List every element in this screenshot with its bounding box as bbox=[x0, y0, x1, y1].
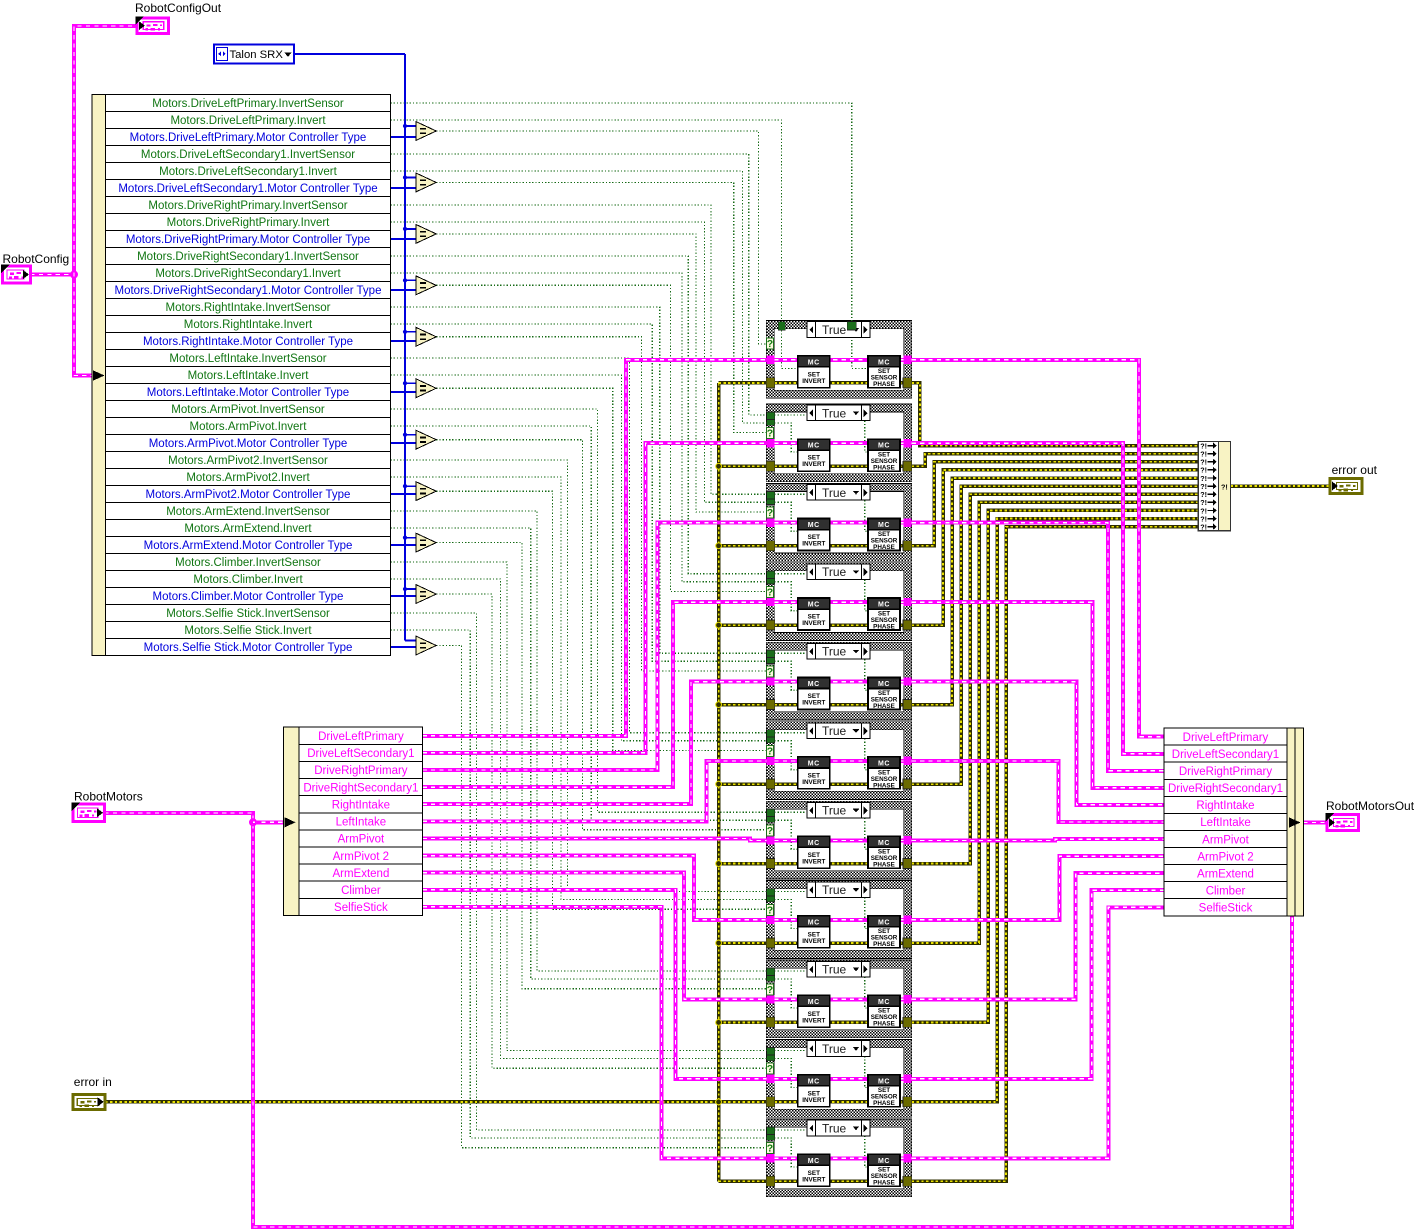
svg-text:Motors.ArmPivot.Motor Controll: Motors.ArmPivot.Motor Controller Type bbox=[149, 438, 348, 450]
case 7 pink tunnel left bbox=[766, 836, 774, 844]
case 7 pink tunnel right bbox=[903, 836, 911, 844]
error branch into case 2 bbox=[719, 465, 767, 469]
svg-text:DriveLeftPrimary: DriveLeftPrimary bbox=[1183, 732, 1269, 744]
boolean wire case 7 internal to Set Invert bbox=[774, 820, 797, 849]
svg-text:Motors.ArmPivot2.InvertSensor: Motors.ArmPivot2.InvertSensor bbox=[168, 455, 328, 467]
case 2 pink tunnel right bbox=[903, 439, 911, 447]
enum wire stub to equals node 2 bbox=[405, 176, 417, 178]
boolean wire Motors.ArmExtend.InvertSensor to case 9 bbox=[391, 511, 767, 971]
case 5 pink tunnel right bbox=[903, 677, 911, 685]
case 6 pink tunnel right bbox=[903, 757, 911, 765]
error wire case 3 internal bbox=[774, 544, 903, 548]
svg-text:INVERT: INVERT bbox=[802, 858, 825, 865]
svg-text:MC: MC bbox=[878, 919, 890, 926]
error wire case 7 to merge errors bbox=[912, 494, 1198, 863]
svg-text:MC: MC bbox=[878, 443, 890, 450]
boolean wire Motors.DriveLeftSecondary1.Invert to case 2 bbox=[391, 171, 767, 423]
svg-text:MC: MC bbox=[808, 761, 820, 768]
svg-text:?!: ?! bbox=[1221, 483, 1228, 492]
svg-text:?: ? bbox=[767, 984, 773, 996]
svg-text:DriveRightSecondary1: DriveRightSecondary1 bbox=[1168, 783, 1283, 795]
svg-text:MC: MC bbox=[878, 840, 890, 847]
case structure 8 border bbox=[766, 881, 911, 959]
case 4 selector terminal bbox=[766, 587, 773, 598]
motor ref wire case 3 to bundle DriveRightPrimary bbox=[912, 523, 1164, 771]
case 6 subVI MC Set Sensor Phase bbox=[868, 757, 900, 789]
motor ref wire case 1 to bundle DriveLeftPrimary bbox=[912, 360, 1164, 737]
svg-text:Motors.DriveLeftPrimary.Invert: Motors.DriveLeftPrimary.Invert bbox=[170, 115, 326, 127]
case 1 error tunnel left bbox=[766, 378, 775, 388]
svg-text:Motors.ArmExtend.InvertSensor: Motors.ArmExtend.InvertSensor bbox=[166, 506, 330, 518]
error wire case 4 to merge errors bbox=[912, 470, 1198, 625]
motor ref wire case 8 to bundle ArmPivot 2 bbox=[912, 856, 1164, 920]
svg-text:error out: error out bbox=[1332, 463, 1378, 477]
case 11 subVI MC Set Sensor Phase bbox=[868, 1154, 900, 1186]
enum wire from Motor Controller Type row 10 bbox=[391, 595, 418, 597]
blue wire junction 3 bbox=[403, 227, 407, 231]
svg-text:PHASE: PHASE bbox=[873, 782, 895, 789]
svg-text:LeftIntake: LeftIntake bbox=[336, 817, 387, 829]
svg-text:?: ? bbox=[767, 1143, 773, 1155]
motor ref wire case 11 internal bbox=[774, 1156, 903, 1160]
svg-text:MC: MC bbox=[878, 522, 890, 529]
RobotMotors wire junction dot bbox=[250, 819, 256, 825]
case structure 3 border bbox=[766, 483, 911, 561]
enum wire stub to equals node 1 bbox=[405, 125, 417, 127]
error trunk junction at case 2 bbox=[716, 463, 722, 469]
svg-text:DriveLeftSecondary1: DriveLeftSecondary1 bbox=[1172, 749, 1279, 761]
svg-text:Motors.DriveRightPrimary.Inver: Motors.DriveRightPrimary.Invert bbox=[167, 217, 331, 229]
boolean wire case 9 internal to Set Sensor Phase bbox=[774, 971, 868, 1008]
case 8 selector terminal bbox=[766, 904, 773, 915]
enum wire from Motor Controller Type row 8 bbox=[391, 493, 418, 495]
equals node 7 bbox=[416, 430, 436, 449]
svg-text:Motors.RightIntake.Motor Contr: Motors.RightIntake.Motor Controller Type bbox=[143, 336, 353, 348]
RobotMotors cluster wire into unbundle bbox=[253, 820, 284, 824]
svg-text:SelfieStick: SelfieStick bbox=[1199, 903, 1253, 915]
boolean wire Motors.Selfie Stick.InvertSensor to case 11 bbox=[391, 613, 767, 1130]
case 9 tunnel Invert bbox=[767, 976, 775, 982]
motor ref wire SelfieStick into case 11 bbox=[423, 907, 767, 1158]
svg-text:MC: MC bbox=[808, 522, 820, 529]
motor ref wire DriveRightSecondary1 into case 4 bbox=[423, 602, 767, 787]
svg-text:DriveRightPrimary: DriveRightPrimary bbox=[1179, 766, 1273, 778]
boolean wire case 6 internal to Set Invert bbox=[774, 741, 797, 770]
case 5 error tunnel left bbox=[766, 700, 775, 710]
motor ref wire DriveLeftSecondary1 into case 2 bbox=[423, 443, 767, 753]
svg-text:PHASE: PHASE bbox=[873, 381, 895, 388]
case 1 error tunnel right bbox=[903, 378, 912, 388]
svg-text:?: ? bbox=[767, 1063, 773, 1075]
error wire case 2 internal bbox=[774, 465, 903, 469]
svg-text:Motors.Selfie Stick.InvertSens: Motors.Selfie Stick.InvertSensor bbox=[166, 608, 330, 620]
error wire case 6 internal bbox=[774, 782, 903, 786]
error trunk junction at case 3 bbox=[716, 543, 722, 549]
svg-text:INVERT: INVERT bbox=[802, 1176, 825, 1183]
case structure 10 border bbox=[766, 1040, 911, 1118]
case 9 error tunnel right bbox=[903, 1017, 912, 1027]
case 5 error tunnel right bbox=[903, 700, 912, 710]
boolean wire Motors.Climber.Invert to case 10 bbox=[391, 579, 767, 1059]
boolean wire Motors.Selfie Stick.Invert to case 11 bbox=[391, 630, 767, 1138]
motor ref wire case 10 to bundle Climber bbox=[912, 890, 1164, 1079]
svg-text:?: ? bbox=[767, 825, 773, 837]
case structure 1 border bbox=[766, 321, 911, 399]
case 11 selector label True bbox=[807, 1120, 870, 1136]
svg-text:Motors.ArmPivot2.Motor Control: Motors.ArmPivot2.Motor Controller Type bbox=[146, 489, 351, 501]
case 5 subVI MC Set Sensor Phase bbox=[868, 677, 900, 709]
error wire case 4 internal bbox=[774, 623, 903, 627]
blue wire junction 1 bbox=[403, 124, 407, 128]
error branch into case 4 bbox=[719, 623, 767, 627]
motor ref wire case 2 internal bbox=[774, 441, 903, 445]
equals node 6 bbox=[416, 379, 436, 398]
svg-text:Climber: Climber bbox=[341, 885, 381, 897]
boolean wire case 2 internal to Set Sensor Phase bbox=[774, 415, 868, 452]
svg-text:RobotMotors: RobotMotors bbox=[74, 790, 143, 804]
boolean wire equals 10 result to case 10 selector bbox=[436, 594, 766, 1068]
motor ref wire case 4 to bundle DriveRightSecondary1 bbox=[912, 602, 1164, 788]
case 6 tunnel Invert bbox=[767, 737, 775, 743]
boolean wire Motors.DriveLeftPrimary.Invert to case 1 bbox=[391, 120, 782, 323]
merge errors node bbox=[1198, 442, 1230, 531]
error wire case 6 to merge errors bbox=[912, 486, 1198, 784]
case 9 subVI MC Set Sensor Phase bbox=[868, 995, 900, 1027]
svg-text:Motors.Climber.Invert: Motors.Climber.Invert bbox=[193, 574, 303, 586]
RobotConfig cluster wire up to RobotConfigOut bbox=[74, 26, 137, 275]
equals node 10 bbox=[416, 585, 436, 604]
svg-text:MC: MC bbox=[808, 999, 820, 1006]
motor ref wire DriveLeftPrimary into case 1 bbox=[423, 360, 767, 736]
boolean wire equals 1 result to case 1 selector bbox=[436, 131, 766, 344]
case 5 subVI MC Set Invert bbox=[798, 677, 830, 709]
boolean wire Motors.DriveRightPrimary.Invert to case 3 bbox=[391, 222, 767, 502]
svg-text:MC: MC bbox=[808, 1078, 820, 1085]
bundle by name RobotMotorsOut bbox=[1164, 728, 1304, 916]
boolean wire case 9 internal to Set Invert bbox=[774, 979, 797, 1008]
case 11 error tunnel left bbox=[766, 1176, 775, 1186]
motor ref wire case 6 internal bbox=[774, 759, 903, 763]
motor ref wire case 8 internal bbox=[774, 918, 903, 922]
case 3 selector terminal bbox=[766, 507, 773, 518]
svg-text:INVERT: INVERT bbox=[802, 1097, 825, 1104]
boolean wire Motors.DriveRightSecondary1.Invert to case 4 bbox=[391, 273, 767, 582]
case 8 error tunnel left bbox=[766, 938, 775, 948]
enum wire stub to equals node 7 bbox=[405, 434, 417, 436]
case 11 subVI MC Set Invert bbox=[798, 1154, 830, 1186]
blue wire junction 5 bbox=[403, 330, 407, 334]
svg-text:PHASE: PHASE bbox=[873, 623, 895, 630]
case 3 pink tunnel left bbox=[766, 518, 774, 526]
motor ref wire case 9 to bundle ArmExtend bbox=[912, 873, 1164, 999]
case structure 7 border bbox=[766, 801, 911, 879]
blue wire junction 10 bbox=[403, 587, 407, 591]
svg-text:MC: MC bbox=[808, 1158, 820, 1165]
svg-text:Motors.DriveLeftSecondary1.Inv: Motors.DriveLeftSecondary1.Invert bbox=[159, 166, 337, 178]
error trunk junction at case 6 bbox=[716, 781, 722, 787]
enum wire from Motor Controller Type row 1 bbox=[391, 136, 418, 138]
motor ref wire case 5 internal bbox=[774, 680, 903, 684]
case 3 tunnel Invert bbox=[767, 499, 775, 505]
svg-text:Motors.DriveLeftSecondary1.Mot: Motors.DriveLeftSecondary1.Motor Control… bbox=[118, 183, 377, 195]
enum wire from Motor Controller Type row 7 bbox=[391, 442, 418, 444]
case 2 tunnel InvertSensor bbox=[767, 412, 775, 419]
error trunk junction at case 9 bbox=[716, 1020, 722, 1026]
RobotMotorsOut cluster wire bbox=[1304, 821, 1328, 825]
boolean wire case 4 internal to Set Sensor Phase bbox=[774, 574, 868, 611]
case 2 error tunnel right bbox=[903, 461, 912, 471]
svg-text:DriveRightSecondary1: DriveRightSecondary1 bbox=[303, 782, 418, 794]
case 3 subVI MC Set Invert bbox=[798, 519, 830, 551]
case 9 tunnel InvertSensor bbox=[767, 968, 775, 975]
case 1 pink tunnel left bbox=[766, 356, 774, 364]
boolean wire case 8 internal to Set Invert bbox=[774, 900, 797, 929]
svg-text:INVERT: INVERT bbox=[802, 938, 825, 945]
RobotConfig cluster wire down to unbundle bbox=[74, 275, 93, 376]
error wire case 10 to merge errors bbox=[912, 519, 1198, 1102]
svg-text:Talon SRX: Talon SRX bbox=[230, 49, 284, 61]
motor ref wire LeftIntake into case 6 bbox=[423, 761, 767, 821]
boolean wire Motors.ArmPivot.Invert to case 7 bbox=[391, 426, 767, 820]
svg-text:Motors.LeftIntake.Motor Contro: Motors.LeftIntake.Motor Controller Type bbox=[147, 387, 349, 399]
motor ref wire case 4 internal bbox=[774, 600, 903, 604]
svg-text:RobotMotorsOut: RobotMotorsOut bbox=[1326, 799, 1415, 813]
motor ref wire ArmPivot 2 into case 8 bbox=[423, 856, 767, 920]
svg-text:?: ? bbox=[767, 507, 773, 519]
case structure 9 border bbox=[766, 960, 911, 1038]
case 10 pink tunnel left bbox=[766, 1075, 774, 1083]
case 8 pink tunnel right bbox=[903, 916, 911, 924]
boolean wire equals 5 result to case 5 selector bbox=[436, 337, 766, 671]
svg-text:?: ? bbox=[767, 428, 773, 440]
svg-text:Motors.DriveRightPrimary.Motor: Motors.DriveRightPrimary.Motor Controlle… bbox=[126, 234, 370, 246]
boolean wire Motors.DriveRightSecondary1.InvertSensor to case 4 bbox=[391, 256, 767, 574]
motor ref wire case 1 internal bbox=[774, 358, 903, 362]
boolean wire case 11 internal to Set Invert bbox=[774, 1138, 797, 1167]
error wire case 2 to merge errors bbox=[912, 454, 1198, 467]
svg-text:Motors.DriveRightSecondary1.Mo: Motors.DriveRightSecondary1.Motor Contro… bbox=[115, 285, 382, 297]
error wire case 3 to merge errors bbox=[912, 462, 1198, 546]
motor ref wire case 5 to bundle RightIntake bbox=[912, 682, 1164, 805]
svg-text:Motors.ArmPivot2.Invert: Motors.ArmPivot2.Invert bbox=[186, 472, 310, 484]
svg-text:True: True bbox=[822, 1042, 847, 1056]
terminal error in bbox=[73, 1094, 105, 1109]
case 1 pink tunnel right bbox=[903, 356, 911, 364]
svg-text:Motors.DriveLeftSecondary1.Inv: Motors.DriveLeftSecondary1.InvertSensor bbox=[141, 149, 355, 161]
error wire case 1 internal bbox=[774, 381, 903, 385]
enum wire stub to equals node 4 bbox=[405, 279, 417, 281]
case 4 error tunnel left bbox=[766, 620, 775, 630]
svg-text:True: True bbox=[822, 323, 847, 337]
case 1 top tunnel InvertSensor bbox=[847, 322, 856, 330]
svg-text:Motors.Climber.InvertSensor: Motors.Climber.InvertSensor bbox=[175, 557, 321, 569]
equals node 9 bbox=[416, 533, 436, 552]
case 10 error tunnel left bbox=[766, 1097, 775, 1107]
boolean wire case 1 internal to Set Sensor Phase bbox=[852, 330, 868, 368]
enum wire from Motor Controller Type row 2 bbox=[391, 187, 418, 189]
error wire case 5 to merge errors bbox=[912, 478, 1198, 705]
case 7 subVI MC Set Sensor Phase bbox=[868, 836, 900, 868]
boolean wire Motors.ArmPivot.InvertSensor to case 7 bbox=[391, 409, 767, 812]
motor ref wire ArmPivot into case 7 bbox=[423, 838, 767, 840]
case 4 pink tunnel left bbox=[766, 598, 774, 606]
svg-text:INVERT: INVERT bbox=[802, 620, 825, 627]
svg-text:INVERT: INVERT bbox=[802, 461, 825, 468]
case 10 error tunnel right bbox=[903, 1097, 912, 1107]
svg-text:True: True bbox=[822, 645, 847, 659]
RobotConfig wire junction dot bbox=[71, 272, 77, 278]
svg-text:True: True bbox=[822, 486, 847, 500]
enum wire from Motor Controller Type row 4 bbox=[391, 289, 418, 291]
case 4 tunnel InvertSensor bbox=[767, 571, 775, 578]
case 11 tunnel Invert bbox=[767, 1135, 775, 1141]
svg-text:PHASE: PHASE bbox=[873, 1100, 895, 1107]
motor ref wire case 6 to bundle LeftIntake bbox=[912, 761, 1164, 822]
svg-text:True: True bbox=[822, 883, 847, 897]
motor ref wire case 3 internal bbox=[774, 521, 903, 525]
svg-text:DriveRightPrimary: DriveRightPrimary bbox=[314, 765, 408, 777]
enum wire Talon SRX horizontal bbox=[294, 53, 405, 55]
motor ref wire DriveRightPrimary into case 3 bbox=[423, 523, 767, 770]
case 7 error tunnel left bbox=[766, 858, 775, 868]
case 8 selector label True bbox=[807, 882, 870, 898]
case 11 tunnel InvertSensor bbox=[767, 1127, 775, 1134]
terminal RobotConfigOut bbox=[137, 18, 169, 34]
case 8 subVI MC Set Invert bbox=[798, 916, 830, 948]
boolean wire equals 3 result to case 3 selector bbox=[436, 234, 766, 512]
case 7 selector label True bbox=[807, 802, 870, 818]
svg-text:MC: MC bbox=[808, 840, 820, 847]
case 10 tunnel InvertSensor bbox=[767, 1048, 775, 1055]
case 6 selector terminal bbox=[766, 745, 773, 756]
svg-text:ArmPivot 2: ArmPivot 2 bbox=[1197, 851, 1253, 863]
boolean wire Motors.ArmExtend.Invert to case 9 bbox=[391, 528, 767, 979]
case 2 subVI MC Set Sensor Phase bbox=[868, 439, 900, 471]
case 10 tunnel Invert bbox=[767, 1055, 775, 1061]
error wire case 7 internal bbox=[774, 862, 903, 866]
svg-text:MC: MC bbox=[878, 681, 890, 688]
svg-text:RightIntake: RightIntake bbox=[332, 799, 390, 811]
svg-text:MC: MC bbox=[808, 443, 820, 450]
error wire case 8 to merge errors bbox=[912, 502, 1198, 943]
boolean wire Motors.RightIntake.InvertSensor to case 5 bbox=[391, 307, 767, 653]
svg-text:error in: error in bbox=[74, 1075, 112, 1089]
svg-text:ArmPivot: ArmPivot bbox=[1202, 834, 1249, 846]
case 5 selector terminal bbox=[766, 666, 773, 677]
unbundle by name RobotMotors bbox=[284, 727, 423, 915]
blue wire junction 4 bbox=[403, 278, 407, 282]
enum wire from Motor Controller Type row 11 bbox=[391, 646, 418, 648]
boolean wire equals 7 result to case 7 selector bbox=[436, 440, 766, 830]
svg-text:Motors.ArmExtend.Motor Control: Motors.ArmExtend.Motor Controller Type bbox=[144, 540, 353, 552]
boolean wire case 6 internal to Set Sensor Phase bbox=[774, 733, 868, 770]
error branch into case 6 bbox=[719, 782, 767, 786]
case 5 tunnel InvertSensor bbox=[767, 650, 775, 657]
case 3 pink tunnel right bbox=[903, 518, 911, 526]
svg-text:MC: MC bbox=[808, 359, 820, 366]
boolean wire case 3 internal to Set Invert bbox=[774, 502, 797, 531]
motor ref wire RightIntake into case 5 bbox=[423, 682, 767, 805]
error wire case 8 internal bbox=[774, 941, 903, 945]
case 3 subVI MC Set Sensor Phase bbox=[868, 519, 900, 551]
boolean wire case 3 internal to Set Sensor Phase bbox=[774, 494, 868, 531]
boolean wire Motors.DriveLeftSecondary1.InvertSensor to case 2 bbox=[391, 154, 767, 415]
enum constant Talon SRX bbox=[214, 45, 294, 64]
case 5 pink tunnel left bbox=[766, 677, 774, 685]
svg-text:INVERT: INVERT bbox=[802, 1017, 825, 1024]
svg-text:MC: MC bbox=[878, 602, 890, 609]
svg-text:Climber: Climber bbox=[1206, 885, 1246, 897]
motor ref wire case 7 internal bbox=[774, 838, 903, 842]
svg-text:PHASE: PHASE bbox=[873, 703, 895, 710]
error wire case 1 to merge errors bbox=[912, 383, 1198, 446]
error branch into case 9 bbox=[719, 1021, 767, 1025]
svg-text:?: ? bbox=[767, 745, 773, 757]
boolean wire Motors.ArmPivot2.InvertSensor to case 8 bbox=[391, 460, 767, 892]
boolean wire Motors.RightIntake.Invert to case 5 bbox=[391, 324, 767, 661]
case 10 subVI MC Set Invert bbox=[798, 1075, 830, 1107]
svg-text:?!: ?! bbox=[1200, 523, 1207, 532]
svg-text:PHASE: PHASE bbox=[873, 862, 895, 869]
enum wire from Motor Controller Type row 9 bbox=[391, 544, 418, 546]
case structure 2 border bbox=[766, 404, 911, 482]
error trunk junction at case 5 bbox=[716, 702, 722, 708]
case 2 selector label True bbox=[807, 405, 870, 421]
error in wire bbox=[105, 1100, 718, 1104]
svg-text:MC: MC bbox=[808, 602, 820, 609]
case 3 tunnel InvertSensor bbox=[767, 491, 775, 498]
case 6 error tunnel right bbox=[903, 779, 912, 789]
svg-text:Motors.DriveLeftPrimary.Invert: Motors.DriveLeftPrimary.InvertSensor bbox=[152, 98, 344, 110]
enum wire from Motor Controller Type row 3 bbox=[391, 238, 418, 240]
error wire case 5 internal bbox=[774, 703, 903, 707]
motor ref wire case 7 to bundle ArmPivot bbox=[912, 839, 1164, 840]
svg-text:True: True bbox=[822, 724, 847, 738]
svg-text:True: True bbox=[822, 406, 847, 420]
svg-text:SelfieStick: SelfieStick bbox=[334, 902, 388, 914]
svg-text:RightIntake: RightIntake bbox=[1196, 800, 1254, 812]
case 7 tunnel InvertSensor bbox=[767, 809, 775, 816]
boolean wire case 5 internal to Set Sensor Phase bbox=[774, 653, 868, 690]
boolean wire case 7 internal to Set Sensor Phase bbox=[774, 812, 868, 849]
case 5 selector label True bbox=[807, 643, 870, 659]
enum wire from Motor Controller Type row 5 bbox=[391, 340, 418, 342]
svg-text:PHASE: PHASE bbox=[873, 1180, 895, 1187]
svg-text:DriveLeftSecondary1: DriveLeftSecondary1 bbox=[307, 748, 414, 760]
motor ref wire case 2 to bundle DriveLeftSecondary1 bbox=[912, 443, 1164, 754]
error wire case 10 internal bbox=[774, 1100, 903, 1104]
case 1 subVI MC Set Sensor Phase bbox=[868, 356, 900, 388]
case 4 pink tunnel right bbox=[903, 598, 911, 606]
enum wire from Motor Controller Type row 6 bbox=[391, 391, 418, 393]
svg-text:True: True bbox=[822, 1121, 847, 1135]
case 6 selector label True bbox=[807, 723, 870, 739]
enum wire vertical trunk bbox=[404, 54, 406, 641]
boolean wire equals 8 result to case 8 selector bbox=[436, 491, 766, 909]
boolean wire Motors.DriveRightPrimary.InvertSensor to case 3 bbox=[391, 205, 767, 494]
svg-text:INVERT: INVERT bbox=[802, 700, 825, 707]
case 8 tunnel Invert bbox=[767, 896, 775, 902]
error wire case 11 internal bbox=[774, 1180, 903, 1184]
case 2 pink tunnel left bbox=[766, 439, 774, 447]
svg-text:PHASE: PHASE bbox=[873, 941, 895, 948]
boolean wire case 1 internal to Set Invert bbox=[782, 330, 798, 368]
case 4 error tunnel right bbox=[903, 620, 912, 630]
case 10 pink tunnel right bbox=[903, 1075, 911, 1083]
error branch into case 10 bbox=[719, 1100, 767, 1104]
equals node 8 bbox=[416, 482, 436, 501]
svg-text:Motors.DriveRightSecondary1.In: Motors.DriveRightSecondary1.Invert bbox=[155, 268, 341, 280]
